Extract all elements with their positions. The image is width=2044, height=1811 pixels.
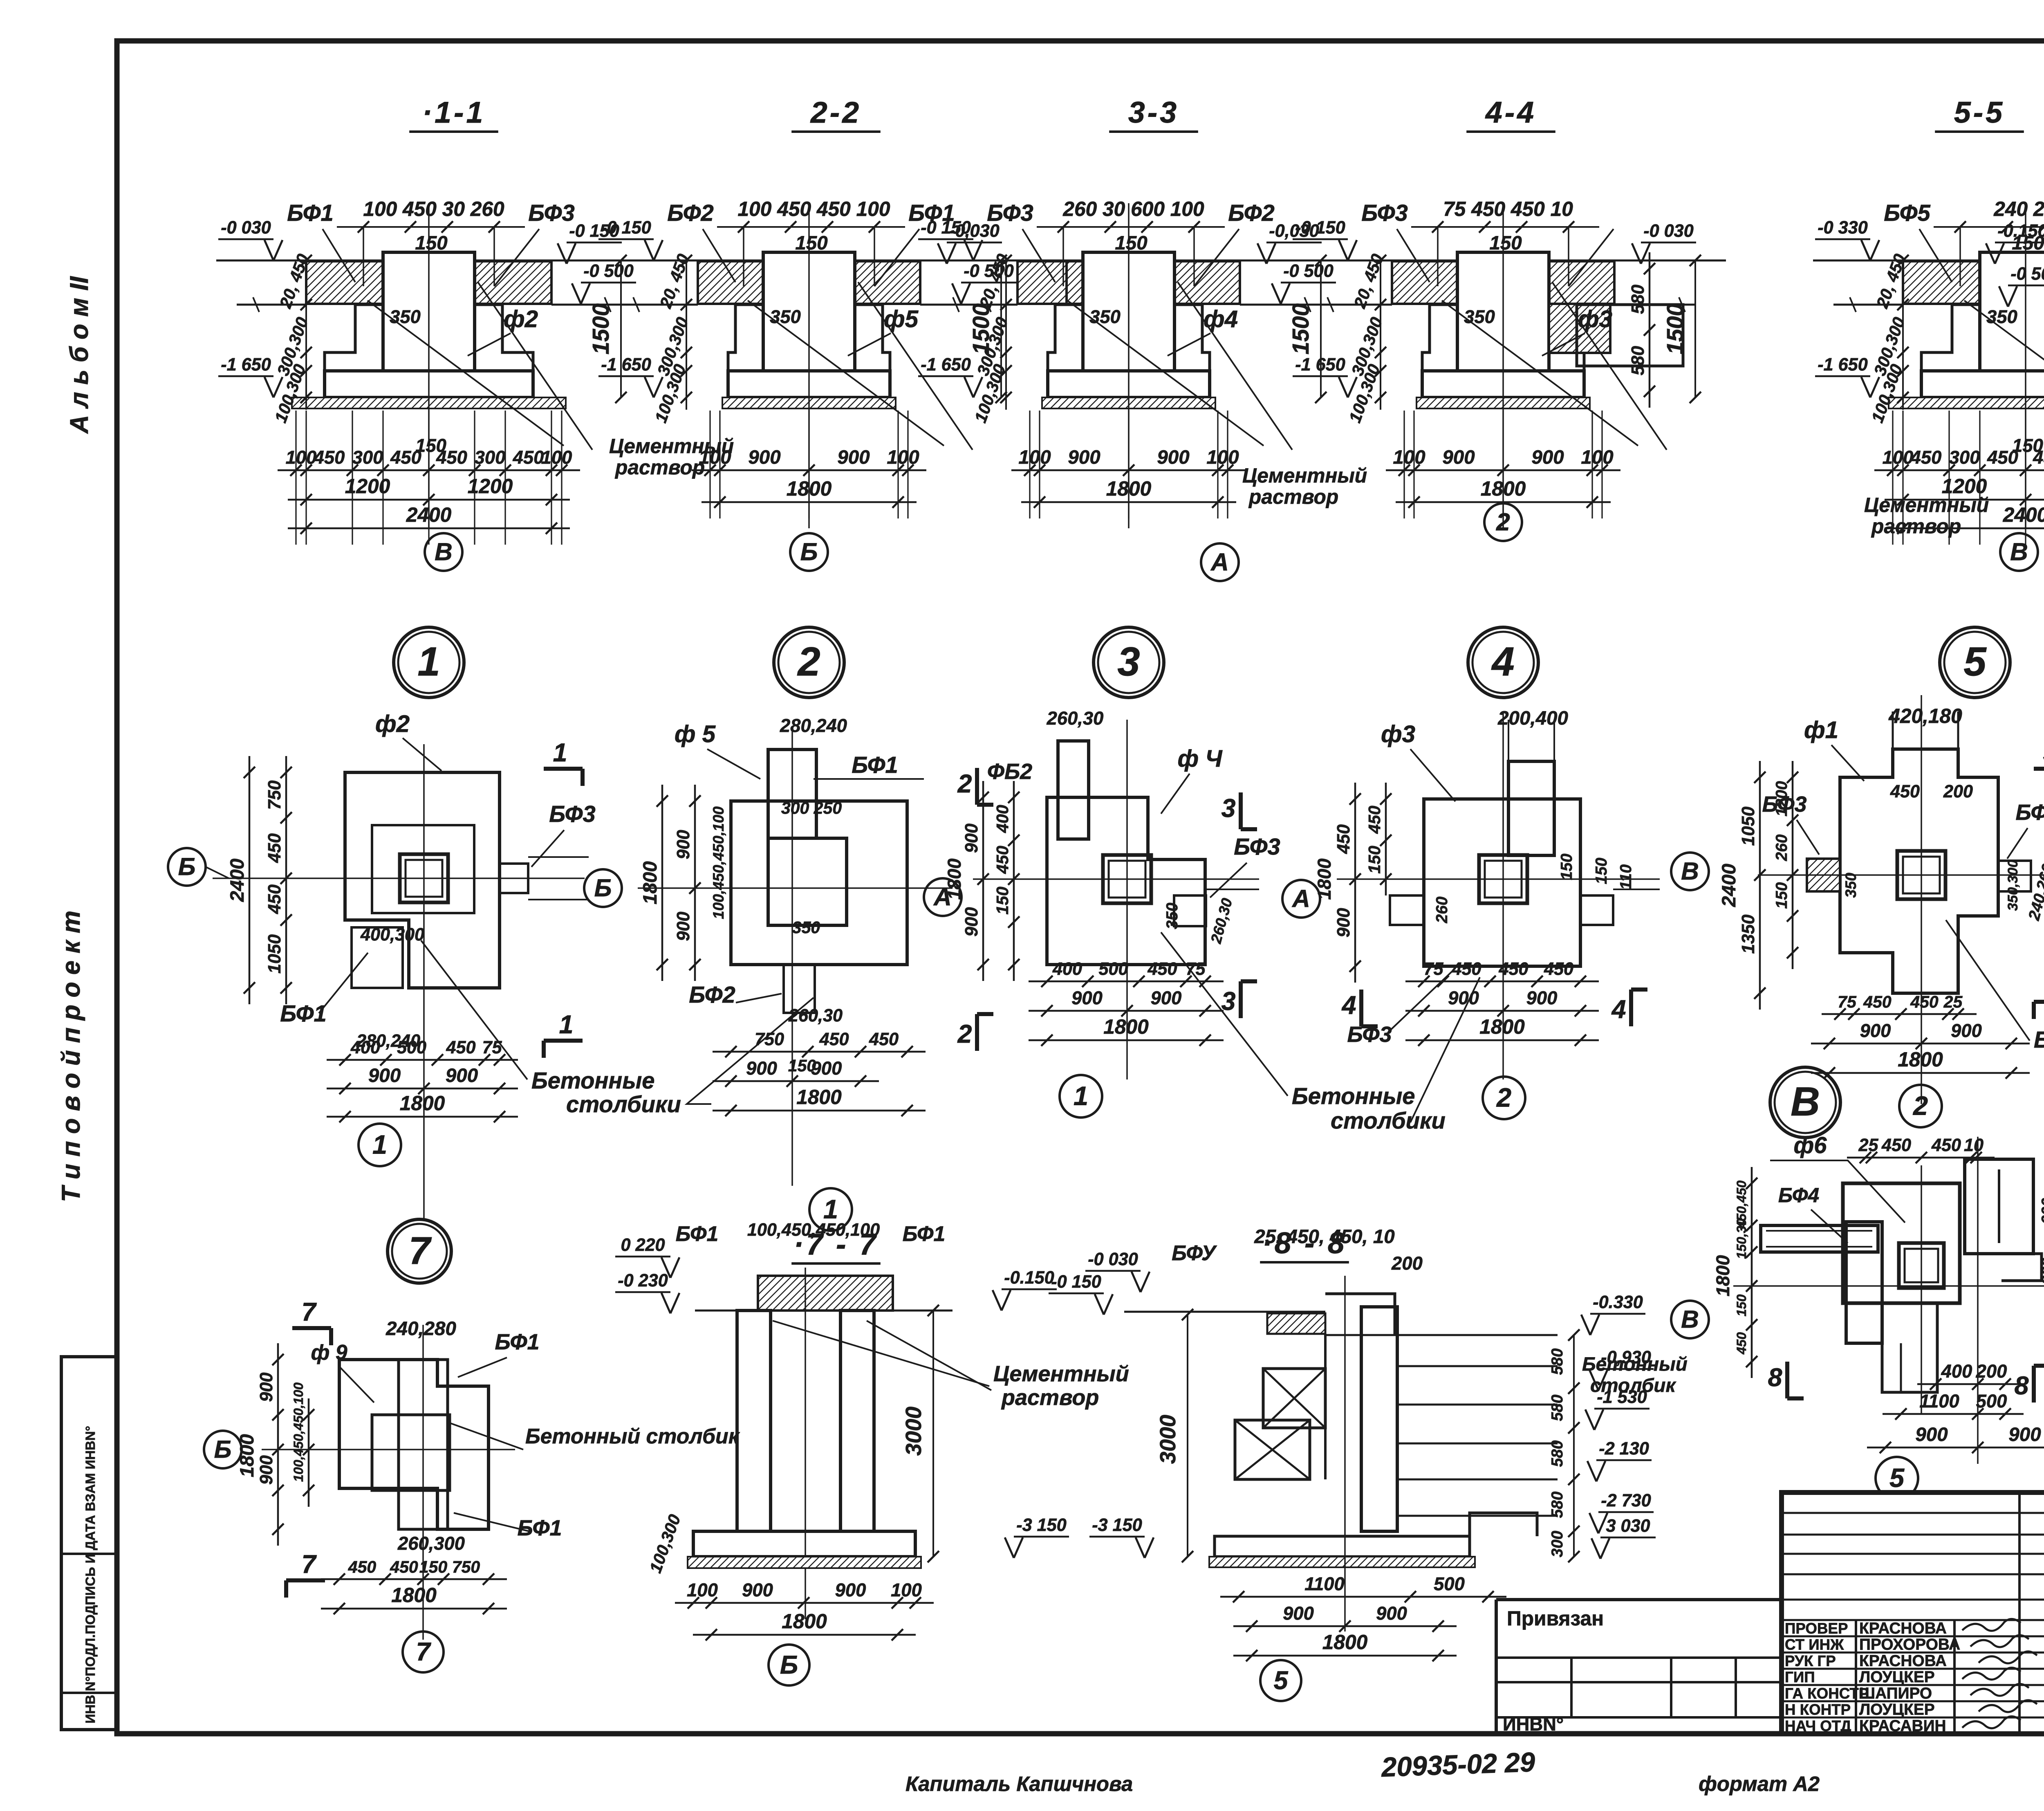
lean concrete hatched strip bbox=[1889, 397, 2044, 408]
svg-text:-0 030: -0 030 bbox=[1643, 221, 1693, 241]
svg-text:ф2: ф2 bbox=[375, 711, 410, 737]
svg-text:8: 8 bbox=[2015, 1371, 2029, 1400]
svg-text:450: 450 bbox=[390, 1557, 418, 1576]
plan В right steps bbox=[2001, 1254, 2042, 1281]
svg-text:450: 450 bbox=[1334, 824, 1354, 854]
svg-text:580: 580 bbox=[1628, 346, 1648, 375]
floor slab left (hatched) bbox=[1903, 261, 1980, 304]
svg-text:3: 3 bbox=[1221, 794, 1236, 823]
dim row 1200 1200 bbox=[288, 499, 570, 501]
svg-text:5: 5 bbox=[1889, 1463, 1905, 1493]
cement mortar leader lines bbox=[1964, 301, 2044, 446]
svg-text:ф Ч: ф Ч bbox=[1177, 745, 1223, 772]
dim row 1800 bbox=[702, 501, 917, 503]
svg-text:400,300: 400,300 bbox=[360, 925, 424, 945]
slab bottom line extensions bbox=[937, 304, 1018, 306]
floor slab right (hatched) bbox=[1174, 261, 1240, 304]
dim row 2400 bbox=[1885, 527, 2044, 530]
svg-text:900: 900 bbox=[368, 1065, 401, 1086]
svg-text:БФ3: БФ3 bbox=[1234, 834, 1280, 859]
svg-text:4-4: 4-4 bbox=[1485, 96, 1536, 129]
svg-text:1500: 1500 bbox=[588, 303, 614, 355]
7-7 lean concrete strip bbox=[688, 1557, 921, 1568]
svg-text:350: 350 bbox=[1464, 306, 1495, 327]
svg-text:450: 450 bbox=[1734, 1332, 1749, 1355]
plan 7 outline bbox=[339, 1360, 489, 1529]
cement mortar leader lines bbox=[1442, 301, 1638, 446]
svg-text:100: 100 bbox=[541, 447, 572, 468]
plan2 bottom dims bbox=[713, 1051, 926, 1053]
svg-text:580: 580 bbox=[1549, 1440, 1566, 1467]
svg-text:580: 580 bbox=[1628, 285, 1648, 314]
svg-text:3000: 3000 bbox=[1156, 1415, 1180, 1464]
dim row small bbox=[1386, 469, 1620, 471]
8-8 level -0 150 left bbox=[1049, 1293, 1104, 1295]
svg-text:БФ1: БФ1 bbox=[903, 1222, 946, 1245]
svg-text:100: 100 bbox=[1018, 447, 1051, 468]
plan5 left vertical dims bbox=[1792, 761, 1794, 969]
svg-text:100,450,450,100: 100,450,450,100 bbox=[710, 806, 727, 919]
svg-text:150,30: 150,30 bbox=[1734, 1219, 1749, 1259]
7-7 level 0 220 bbox=[615, 1256, 670, 1258]
svg-text:2: 2 bbox=[957, 1020, 972, 1048]
section mark 3 bottom bbox=[1239, 981, 1243, 1018]
axis circle 1 below bbox=[359, 1124, 401, 1166]
big axis circle 2 bbox=[774, 627, 844, 698]
plan ф1 left stub bbox=[1807, 859, 1840, 891]
svg-text:450: 450 bbox=[513, 447, 544, 468]
svg-text:В: В bbox=[1791, 1079, 1820, 1124]
extension lines bbox=[295, 411, 296, 545]
plan view ф4 outline bbox=[1047, 797, 1205, 965]
svg-text:А: А bbox=[1291, 884, 1310, 912]
svg-text:150: 150 bbox=[795, 232, 827, 254]
section mark 3 top bbox=[1239, 792, 1243, 829]
svg-text:100 450 450 100: 100 450 450 100 bbox=[738, 197, 890, 220]
8-8 wall bbox=[1361, 1307, 1397, 1531]
svg-text:БФ4: БФ4 bbox=[1778, 1184, 1819, 1207]
7-7 columns bbox=[737, 1311, 771, 1531]
plan В (ф6) dim row top bbox=[1847, 1157, 1995, 1159]
svg-text:ЛОУЦКЕР: ЛОУЦКЕР bbox=[1859, 1701, 1935, 1719]
title block sign rows bbox=[1782, 1635, 2044, 1637]
level marks left bbox=[218, 238, 273, 240]
svg-text:БФ1: БФ1 bbox=[495, 1330, 539, 1354]
level marks right bbox=[1266, 242, 1322, 244]
svg-text:ф6: ф6 bbox=[1794, 1132, 1827, 1158]
axis circle 1 below bbox=[1060, 1075, 1102, 1118]
svg-text:900: 900 bbox=[837, 447, 870, 468]
svg-text:580: 580 bbox=[1549, 1394, 1566, 1421]
svg-text:450: 450 bbox=[1544, 959, 1573, 979]
column axis line bbox=[1502, 203, 1504, 528]
plan ф3 axes bbox=[1337, 878, 1660, 880]
floor level line bbox=[216, 260, 652, 262]
svg-text:Б: Б bbox=[214, 1435, 232, 1463]
svg-text:300: 300 bbox=[1949, 447, 1980, 468]
floor slab left (hatched) bbox=[698, 261, 763, 304]
svg-text:ИНВN°: ИНВN° bbox=[1503, 1714, 1564, 1735]
svg-text:Бетонный: Бетонный bbox=[1582, 1353, 1688, 1375]
svg-text:900: 900 bbox=[746, 1058, 777, 1079]
svg-text:БФ1: БФ1 bbox=[852, 752, 898, 778]
svg-text:900: 900 bbox=[962, 824, 982, 853]
plan ф4 axes bbox=[973, 878, 1259, 880]
vertical dim 1500 bbox=[620, 260, 622, 397]
svg-text:260,300: 260,300 bbox=[397, 1533, 465, 1554]
svg-text:-0 150: -0 150 bbox=[1051, 1272, 1101, 1292]
svg-text:900: 900 bbox=[2008, 1424, 2041, 1445]
svg-text:350: 350 bbox=[1986, 306, 2017, 327]
svg-text:900: 900 bbox=[1860, 1020, 1891, 1041]
left vertical dims bbox=[1902, 260, 1904, 410]
footing base slab bbox=[1048, 371, 1210, 397]
plan ф2 axes bbox=[213, 877, 585, 879]
svg-text:100: 100 bbox=[887, 447, 919, 468]
svg-text:2400: 2400 bbox=[2003, 503, 2044, 526]
svg-text:150: 150 bbox=[1365, 846, 1384, 874]
7-7 vertical dim 3000 bbox=[932, 1311, 934, 1557]
svg-text:А: А bbox=[1210, 548, 1229, 576]
svg-text:3: 3 bbox=[1221, 987, 1236, 1016]
svg-text:раствор: раствор bbox=[1001, 1385, 1099, 1410]
extension lines bbox=[1403, 411, 1405, 518]
axis circle 5 below 8-8 bbox=[1260, 1660, 1301, 1701]
svg-text:БФ2: БФ2 bbox=[689, 982, 735, 1008]
svg-text:Н КОНТР: Н КОНТР bbox=[1785, 1701, 1851, 1718]
svg-text:150: 150 bbox=[2012, 435, 2043, 456]
plan ф5 inner rect bbox=[768, 838, 847, 925]
svg-text:1800: 1800 bbox=[391, 1584, 437, 1607]
plan view ф1 outline bbox=[1840, 749, 1998, 993]
svg-text:900: 900 bbox=[1283, 1603, 1314, 1624]
column axis line bbox=[428, 203, 430, 528]
plan В left lower column bbox=[1846, 1222, 1882, 1343]
axis circle В bbox=[425, 533, 462, 571]
8-8 base bbox=[1215, 1513, 1537, 1536]
svg-text:500: 500 bbox=[1098, 959, 1128, 979]
section mark 5 bottom bbox=[2034, 1000, 2044, 1004]
svg-text:-3 150: -3 150 bbox=[1016, 1515, 1066, 1535]
axis circle Б left bbox=[204, 1431, 242, 1468]
axis circle 5 below bbox=[1876, 1457, 1918, 1499]
svg-text:450: 450 bbox=[1451, 959, 1481, 979]
svg-text:-0 150: -0 150 bbox=[601, 218, 651, 238]
svg-text:-0 030: -0 030 bbox=[1088, 1250, 1138, 1269]
level marks right bbox=[567, 242, 622, 244]
svg-text:900: 900 bbox=[2039, 1258, 2044, 1284]
svg-text:280,240: 280,240 bbox=[780, 715, 847, 736]
floor level line bbox=[596, 260, 1032, 262]
svg-text:1: 1 bbox=[553, 738, 567, 767]
svg-text:8: 8 bbox=[1768, 1363, 1782, 1392]
svg-text:350: 350 bbox=[770, 306, 801, 327]
svg-text:450: 450 bbox=[1890, 782, 1920, 801]
svg-text:450: 450 bbox=[1881, 1136, 1911, 1155]
8-8 level -0 030 left bbox=[1085, 1270, 1141, 1272]
left vertical dims bbox=[1005, 260, 1007, 410]
lean concrete hatched strip bbox=[722, 397, 896, 408]
cement mortar leader lines bbox=[368, 301, 564, 446]
svg-text:5: 5 bbox=[1963, 639, 1987, 684]
svg-text:БФ3: БФ3 bbox=[528, 200, 574, 226]
svg-text:150: 150 bbox=[415, 435, 446, 456]
svg-text:1800: 1800 bbox=[1712, 1255, 1733, 1297]
column axis line bbox=[808, 203, 810, 528]
svg-text:100: 100 bbox=[891, 1580, 922, 1600]
svg-text:2: 2 bbox=[1912, 1091, 1928, 1121]
title block outer border bbox=[1782, 1492, 2044, 1734]
axis circle 1 below bbox=[809, 1188, 852, 1231]
svg-text:240 280: 240 280 bbox=[1993, 197, 2044, 220]
slab bottom line extensions bbox=[1311, 304, 1392, 306]
cement mortar leader lines bbox=[748, 301, 944, 446]
svg-text:240,280: 240,280 bbox=[385, 1318, 456, 1340]
svg-text:580: 580 bbox=[1549, 1491, 1566, 1518]
svg-text:150: 150 bbox=[1734, 1294, 1749, 1316]
section mark 7 top bbox=[292, 1326, 331, 1330]
plan4 bottom dims bbox=[1405, 981, 1599, 983]
plan ф1 axes bbox=[1758, 874, 2044, 876]
svg-text:-0.330: -0.330 bbox=[1593, 1293, 1643, 1312]
svg-text:150: 150 bbox=[1115, 232, 1147, 254]
svg-text:КРАСНОВА: КРАСНОВА bbox=[1859, 1620, 1947, 1637]
svg-text:Цементный: Цементный bbox=[993, 1362, 1129, 1386]
svg-text:900: 900 bbox=[742, 1580, 773, 1600]
column ф4 bbox=[1083, 252, 1174, 371]
plan В bottom dims bbox=[1917, 1383, 2024, 1385]
section mark 2 bottom bbox=[975, 1014, 979, 1051]
svg-text:2-2: 2-2 bbox=[810, 96, 861, 129]
svg-text:100: 100 bbox=[1883, 447, 1914, 468]
dim row small bbox=[1874, 469, 2044, 471]
svg-text:150: 150 bbox=[1558, 853, 1576, 880]
svg-text:450: 450 bbox=[1863, 992, 1892, 1011]
svg-text:900: 900 bbox=[257, 1372, 276, 1402]
dim row 2400 bbox=[288, 527, 570, 530]
svg-text:450: 450 bbox=[446, 1038, 475, 1057]
footing step bbox=[1048, 305, 1055, 371]
svg-text:900: 900 bbox=[962, 907, 982, 936]
plan 7 inner block bbox=[372, 1415, 450, 1490]
axis circle Б bbox=[584, 869, 622, 907]
vertical dim 1500 bbox=[1320, 260, 1322, 397]
plan ф5 top column bbox=[768, 750, 816, 838]
svg-text:Т и п о в о й п р о е к т: Т и п о в о й п р о е к т bbox=[57, 911, 85, 1202]
plan ф5 bottom stub bbox=[784, 965, 815, 1013]
svg-text:900: 900 bbox=[674, 911, 693, 941]
svg-text:2: 2 bbox=[1496, 1083, 1511, 1113]
svg-text:5-5: 5-5 bbox=[1954, 96, 2005, 129]
svg-text:450: 450 bbox=[1910, 992, 1939, 1011]
dim row 1800 bbox=[1021, 501, 1236, 503]
cement mortar leader lines bbox=[1067, 301, 1264, 446]
footing step bbox=[1422, 305, 1430, 371]
plan В right wall block bbox=[1965, 1159, 2033, 1254]
svg-text:1350: 1350 bbox=[1739, 914, 1758, 954]
dim row 1200 1200 bbox=[1885, 499, 2044, 501]
svg-text:580: 580 bbox=[1549, 1348, 1566, 1375]
svg-text:750: 750 bbox=[755, 1030, 784, 1049]
svg-text:БФ5: БФ5 bbox=[1884, 200, 1930, 226]
svg-text:100: 100 bbox=[286, 447, 317, 468]
svg-text:4: 4 bbox=[1491, 639, 1514, 684]
svg-text:1500: 1500 bbox=[1288, 303, 1313, 355]
section mark 4 left bbox=[1359, 990, 1363, 1026]
svg-text:25, 450, 450, 10: 25, 450, 450, 10 bbox=[1254, 1226, 1394, 1248]
svg-text:2: 2 bbox=[1496, 508, 1510, 536]
floor slab right (hatched) bbox=[475, 261, 551, 304]
lean concrete hatched strip bbox=[1042, 397, 1215, 408]
svg-text:1800: 1800 bbox=[1103, 1015, 1149, 1038]
svg-text:400: 400 bbox=[1052, 959, 1082, 979]
8-8 vertical dim 3000 bbox=[1187, 1315, 1188, 1557]
svg-text:Бетонные: Бетонные bbox=[531, 1068, 655, 1093]
svg-text:100: 100 bbox=[1581, 447, 1613, 468]
footing step bbox=[728, 305, 735, 371]
svg-text:ПРОХОРОВА: ПРОХОРОВА bbox=[1859, 1636, 1960, 1654]
svg-text:1100: 1100 bbox=[1919, 1391, 1959, 1412]
floor slab right (hatched) bbox=[1549, 261, 1614, 304]
svg-text:ПРОВЕР: ПРОВЕР bbox=[1785, 1620, 1848, 1637]
left vertical dims bbox=[305, 260, 307, 410]
svg-text:750: 750 bbox=[452, 1557, 480, 1576]
svg-text:1: 1 bbox=[1074, 1081, 1088, 1111]
plan7 bottom dims bbox=[321, 1578, 507, 1580]
svg-text:В: В bbox=[2010, 538, 2028, 566]
plan ф2 bottom-left pocket bbox=[352, 927, 403, 988]
svg-text:1050: 1050 bbox=[1739, 806, 1758, 846]
svg-text:350: 350 bbox=[1163, 902, 1181, 929]
level marks left bbox=[918, 238, 973, 240]
svg-text:Цементный: Цементный bbox=[1864, 494, 1989, 516]
svg-text:450: 450 bbox=[314, 447, 345, 468]
7-7 bottom dims bbox=[675, 1602, 934, 1604]
svg-text:100: 100 bbox=[1393, 447, 1425, 468]
8-8 bottom dims bbox=[1220, 1596, 1506, 1598]
dim row small bbox=[1011, 469, 1246, 471]
footing step bbox=[325, 305, 355, 371]
level -0 500 right of 5-5 bbox=[2008, 285, 2044, 287]
svg-text:450: 450 bbox=[1498, 959, 1528, 979]
column ф5 bbox=[763, 252, 855, 371]
plan ф1 column socket bbox=[1897, 851, 1945, 899]
7-7 top slab hatched bbox=[758, 1276, 893, 1311]
section mark 8 left bbox=[1785, 1362, 1789, 1398]
8-8 lean strip bbox=[1209, 1557, 1475, 1567]
svg-text:110: 110 bbox=[1617, 864, 1635, 890]
plan 7 axes bbox=[262, 1449, 515, 1450]
svg-text:СТ ИНЖ: СТ ИНЖ bbox=[1785, 1636, 1844, 1653]
svg-text:БФ1: БФ1 bbox=[517, 1516, 562, 1540]
svg-text:БФ3: БФ3 bbox=[987, 200, 1033, 226]
axis circle В left bbox=[1671, 853, 1709, 890]
floor level line bbox=[1291, 260, 1726, 262]
7-7 level -0 230 bbox=[615, 1291, 670, 1293]
plan view ф2 outline bbox=[345, 772, 500, 988]
section mark 2 top bbox=[975, 768, 979, 805]
svg-text:150: 150 bbox=[419, 1557, 448, 1576]
svg-text:1800: 1800 bbox=[796, 1086, 842, 1109]
svg-text:100: 100 bbox=[687, 1580, 718, 1600]
svg-text:ФБ2: ФБ2 bbox=[987, 759, 1032, 784]
svg-text:25: 25 bbox=[1943, 992, 1963, 1011]
8-8 axis bbox=[1344, 1276, 1346, 1631]
section mark 1 bottom bbox=[544, 1039, 583, 1043]
plan ф3 top column bbox=[1508, 761, 1554, 855]
level -0.150 right of 5-5 bbox=[1995, 242, 2044, 244]
svg-text:350: 350 bbox=[792, 918, 820, 937]
svg-text:НАЧ ОТД: НАЧ ОТД bbox=[1785, 1717, 1851, 1734]
svg-text:900: 900 bbox=[1951, 1020, 1982, 1041]
svg-text:400: 400 bbox=[350, 1038, 380, 1057]
plan В lower extension bbox=[1882, 1303, 1937, 1392]
vertical dim 1500 bbox=[1694, 260, 1696, 397]
svg-text:раствор: раствор bbox=[1871, 515, 1961, 538]
svg-text:-0 330: -0 330 bbox=[1818, 218, 1867, 238]
plan1 bottom dims bbox=[327, 1059, 518, 1061]
svg-text:-1 650: -1 650 bbox=[1818, 355, 1867, 375]
axis circle А bbox=[1201, 543, 1239, 581]
plan3 bottom dims bbox=[1029, 981, 1224, 983]
footing base slab bbox=[1921, 371, 2044, 397]
svg-text:7: 7 bbox=[409, 1229, 432, 1272]
svg-text:900: 900 bbox=[1531, 447, 1564, 468]
svg-text:1100: 1100 bbox=[1304, 1573, 1345, 1594]
svg-text:600: 600 bbox=[2039, 1198, 2044, 1224]
svg-text:20935-02 29: 20935-02 29 bbox=[1380, 1747, 1535, 1783]
svg-text:0 220: 0 220 bbox=[621, 1235, 665, 1255]
svg-text:столбики: столбики bbox=[566, 1091, 681, 1117]
slab bottom line extensions bbox=[1833, 304, 1903, 306]
svg-text:450: 450 bbox=[348, 1557, 377, 1576]
svg-text:450: 450 bbox=[1931, 1136, 1961, 1155]
8-8 level -3 150 left bbox=[1089, 1536, 1145, 1538]
svg-text:КРАСАВИН: КРАСАВИН bbox=[1859, 1717, 1946, 1735]
level marks left bbox=[1815, 238, 1870, 240]
svg-text:ГА КОНСТР: ГА КОНСТР bbox=[1785, 1685, 1869, 1702]
svg-text:4: 4 bbox=[1611, 995, 1626, 1024]
svg-text:Б: Б bbox=[594, 874, 612, 902]
svg-text:В: В bbox=[1681, 857, 1699, 885]
svg-text:Привязан: Привязан bbox=[1507, 1607, 1604, 1630]
plan В left beam БФ4 bbox=[1761, 1225, 1878, 1252]
svg-text:Б: Б bbox=[800, 538, 818, 566]
svg-text:Бетонные: Бетонные bbox=[2034, 1027, 2044, 1052]
svg-text:ЛОУЦКЕР: ЛОУЦКЕР bbox=[1859, 1668, 1935, 1686]
svg-text:260,30: 260,30 bbox=[788, 1006, 843, 1026]
big axis circle 3 bbox=[1094, 627, 1164, 698]
adjacent wall block right (hatched) bbox=[1549, 304, 1610, 353]
svg-text:1800: 1800 bbox=[400, 1092, 445, 1115]
svg-text:Цементный: Цементный bbox=[1242, 464, 1367, 487]
svg-text:ф3: ф3 bbox=[1381, 721, 1415, 747]
plan view ф5 outline bbox=[731, 801, 907, 965]
svg-text:200: 200 bbox=[1391, 1253, 1423, 1274]
svg-text:900: 900 bbox=[1151, 987, 1182, 1008]
svg-text:БФ2: БФ2 bbox=[1228, 200, 1274, 226]
svg-text:350: 350 bbox=[1842, 873, 1859, 898]
svg-text:7: 7 bbox=[416, 1638, 432, 1666]
left hatched block bbox=[1018, 261, 1067, 304]
svg-text:150: 150 bbox=[1773, 882, 1791, 909]
svg-text:-1 650: -1 650 bbox=[921, 355, 970, 375]
svg-text:900: 900 bbox=[835, 1580, 866, 1600]
floor slab left (hatched) bbox=[1018, 261, 1083, 304]
8-8 cross-braced box lower bbox=[1235, 1420, 1310, 1479]
svg-text:500: 500 bbox=[397, 1038, 426, 1057]
svg-text:150: 150 bbox=[1489, 232, 1522, 254]
